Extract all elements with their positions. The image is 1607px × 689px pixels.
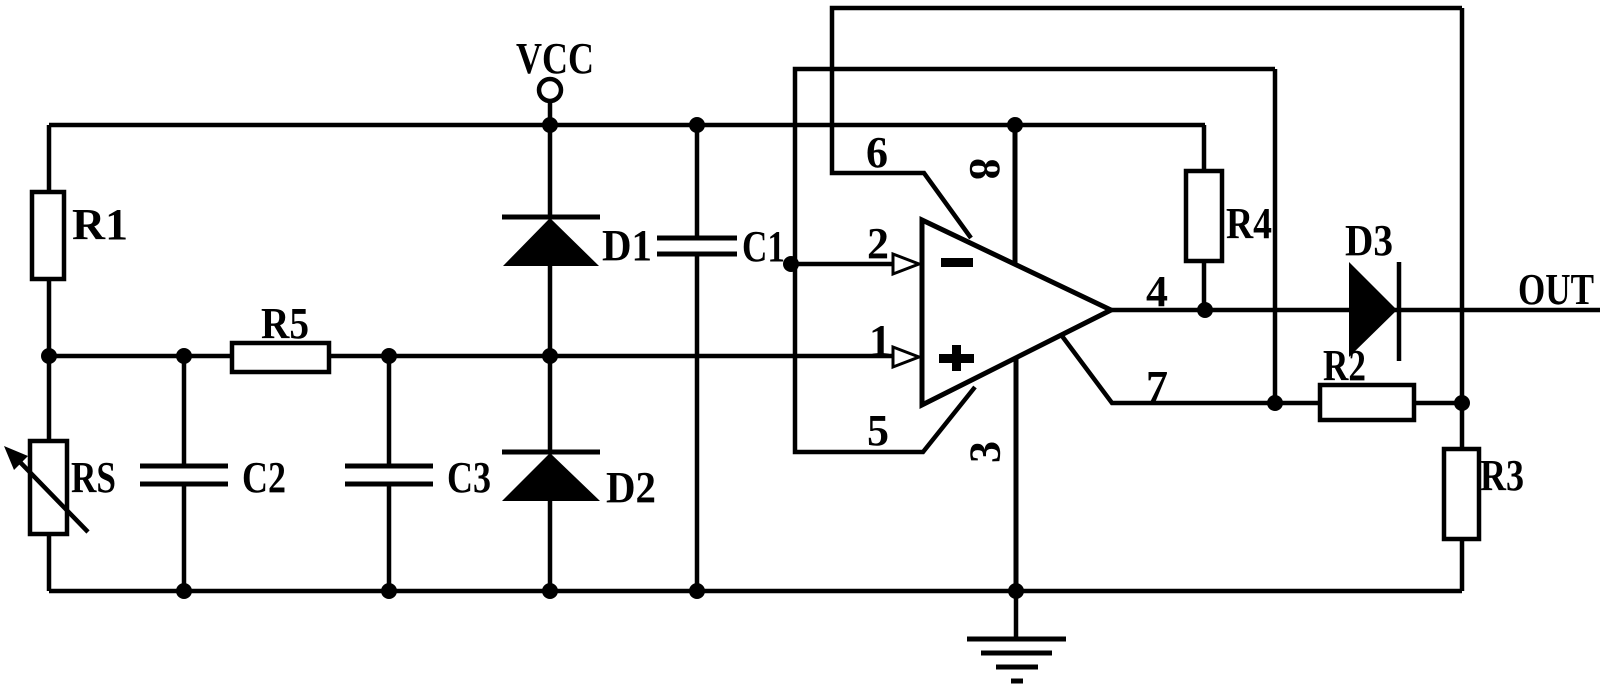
svg-text:R5: R5	[261, 299, 309, 348]
svg-text:RS: RS	[71, 453, 116, 502]
svg-text:4: 4	[1146, 267, 1168, 316]
svg-text:D3: D3	[1345, 216, 1393, 265]
capacitor C2	[182, 356, 187, 591]
resistor R5	[232, 343, 329, 372]
pin 1 input arrow	[893, 347, 919, 367]
svg-text:1: 1	[869, 316, 891, 365]
node middle wire left	[41, 348, 57, 364]
wire pin 7	[1062, 336, 1320, 403]
ground	[1014, 591, 1019, 639]
node VCC rail / D1	[542, 117, 558, 133]
wire pin 8 vertical	[1013, 125, 1018, 264]
wire bottom ground rail	[49, 589, 1462, 594]
svg-text:8: 8	[961, 158, 1010, 180]
svg-text:3: 3	[961, 441, 1010, 463]
resistor R2	[1320, 385, 1414, 420]
wire R2 to node	[1414, 401, 1462, 406]
wire VCC rail top	[49, 123, 1205, 128]
node VCC rail / pin 8	[1007, 117, 1023, 133]
svg-text:5: 5	[867, 406, 889, 455]
svg-text:R2: R2	[1323, 341, 1366, 390]
wire right vertical (pin 6 to R2/R3 node)	[1460, 8, 1465, 591]
capacitor C3	[387, 356, 392, 591]
wire middle (pin 1 net)	[49, 354, 893, 359]
diode D1 (zener to VCC rail)	[548, 125, 553, 356]
node middle wire / C2	[176, 348, 192, 364]
resistor R1	[32, 192, 64, 279]
svg-text:R1: R1	[72, 200, 128, 249]
diode D3	[1349, 262, 1397, 357]
svg-text:VCC: VCC	[516, 34, 594, 83]
capacitor C1	[695, 125, 700, 591]
svg-text:C3: C3	[447, 453, 491, 502]
op-amp U1 triangle	[922, 220, 1111, 405]
node R4 / OUT wire	[1197, 302, 1213, 318]
VCC terminal	[539, 79, 561, 101]
pin 2 input arrow	[893, 254, 919, 274]
node bottom / C3	[381, 583, 397, 599]
svg-text:6: 6	[866, 128, 888, 177]
RS arrowhead	[4, 446, 28, 470]
svg-text:R4: R4	[1226, 199, 1272, 248]
resistor R4	[1202, 125, 1207, 310]
node pin 7 / pin 5 net	[1267, 395, 1283, 411]
svg-text:C2: C2	[242, 453, 286, 502]
plus sign	[939, 354, 974, 363]
node middle wire / C3	[381, 348, 397, 364]
svg-text:R3: R3	[1480, 451, 1524, 500]
wire RS diagonal	[18, 460, 88, 532]
wire pin 5 net right vertical	[1273, 69, 1278, 403]
node VCC rail / C1	[689, 117, 705, 133]
node bottom / C1	[689, 583, 705, 599]
node middle wire / D1-D2	[542, 348, 558, 364]
svg-text:D1: D1	[602, 221, 652, 270]
svg-text:D2: D2	[606, 463, 656, 512]
node R2 / R3	[1454, 395, 1470, 411]
svg-text:2: 2	[867, 219, 889, 268]
svg-text:C1: C1	[742, 222, 785, 271]
wire left vertical R1/RS column	[47, 125, 52, 591]
minus sign	[941, 258, 973, 267]
resistor R3	[1444, 449, 1479, 539]
diode D2	[548, 356, 553, 591]
wire VCC stub	[548, 101, 553, 125]
node bottom / D2	[542, 583, 558, 599]
svg-text:OUT: OUT	[1518, 265, 1594, 314]
IC outline top wire (pin 6 net)	[832, 8, 1462, 238]
node bottom / C2	[176, 583, 192, 599]
wire pin 3 vertical	[1014, 359, 1019, 591]
node pin 2 junction	[783, 256, 799, 272]
wire output pin 4 (OUT net)	[1111, 308, 1600, 313]
node bottom / ground	[1008, 583, 1024, 599]
svg-text:7: 7	[1146, 362, 1168, 411]
IC outline second wire (pin 5 net)	[795, 69, 1275, 452]
resistor RS (thermistor)	[30, 441, 67, 534]
wire pin 2 input	[791, 262, 893, 267]
